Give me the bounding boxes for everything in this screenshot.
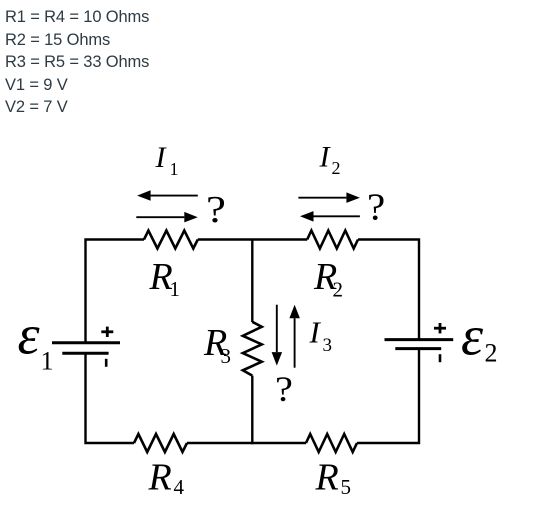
wire middle branch lower [251,376,253,445]
wire top-right segment [358,240,419,340]
svg-text:5: 5 [341,475,352,499]
svg-text:3: 3 [323,335,333,356]
current arrow I3 upward [289,305,300,368]
svg-text:2: 2 [332,158,341,178]
svg-text:ε: ε [461,306,484,368]
battery E2 [385,323,454,362]
current arrow I3 downward [272,305,283,366]
wire top-middle segment [198,238,307,240]
wire middle branch upper [251,239,253,323]
label I3 [309,315,333,357]
current arrow I1 leftward [137,190,198,201]
battery E1 [52,327,120,367]
svg-text:1: 1 [170,159,179,179]
resistor R2 label [313,256,343,302]
parameter text block [5,6,149,118]
wire bottom-right segment [357,349,419,443]
resistor R2 [307,231,358,249]
resistor R4 [134,434,187,452]
label I2 [319,141,341,178]
battery E2 label [461,306,498,368]
svg-text:1: 1 [41,347,54,376]
resistor R5 [306,434,357,452]
svg-text:ε: ε [18,305,41,367]
current arrow I2 rightward [298,192,360,203]
battery E1 label [18,305,54,376]
svg-text:2: 2 [485,339,498,368]
svg-text:4: 4 [174,475,185,499]
svg-text:I: I [155,141,168,174]
wire bottom-left segment [86,353,135,443]
wire top-left segment [86,240,145,343]
svg-text:3: 3 [221,344,232,368]
resistor R1 [144,231,198,249]
resistor R4 label [148,456,185,499]
resistor R1 label [149,256,181,301]
svg-text:1: 1 [170,277,181,301]
svg-text:?: ? [367,186,385,228]
svg-text:I: I [319,141,332,174]
svg-text:2: 2 [333,278,344,302]
resistor R5 label [315,456,352,499]
svg-text:?: ? [275,370,293,410]
resistor R3 label [203,322,231,368]
wire bottom-middle segment [187,442,306,444]
current arrow I1 rightward [136,212,198,223]
current arrow I2 leftward [300,211,360,222]
svg-text:R: R [315,456,339,498]
svg-text:I: I [309,315,322,350]
svg-text:R: R [148,456,172,498]
resistor R3 [243,322,262,376]
label I1 [155,141,179,179]
svg-text:?: ? [206,188,226,230]
